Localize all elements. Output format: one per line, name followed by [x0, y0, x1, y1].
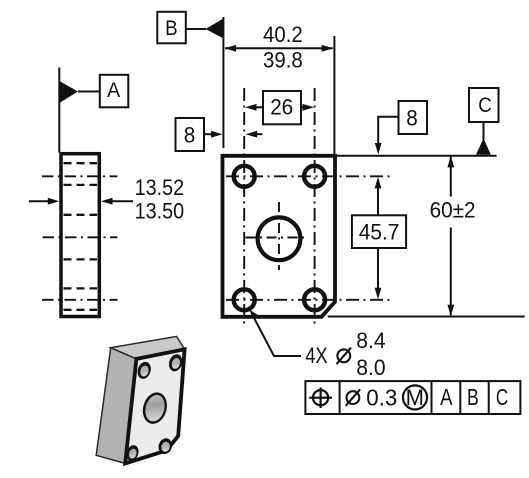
hidden line top hole lower	[64, 184, 98, 186]
dim 26 box	[263, 91, 301, 124]
datum A leader	[78, 91, 100, 93]
svg-text:4X: 4X	[305, 343, 328, 368]
dim 60 line upper segment	[447, 156, 454, 197]
datum A triangle	[59, 81, 78, 103]
datum A box	[100, 75, 129, 108]
fcf M circle	[403, 385, 427, 410]
top edge extension line right	[337, 155, 497, 157]
feature control frame outline	[305, 381, 520, 414]
svg-text:13.52: 13.52	[135, 175, 185, 200]
dim 26 right arrow	[301, 104, 314, 111]
hidden line bottom hole upper	[64, 287, 98, 289]
dim 45.7 upper arrow	[375, 177, 382, 215]
3d hole bottom-right	[157, 437, 174, 456]
callout text 8.4	[356, 328, 385, 353]
dim text 60±2	[430, 197, 476, 222]
hidden line top hole upper	[64, 162, 98, 164]
svg-text:B: B	[467, 384, 479, 410]
fcf datum C	[496, 384, 508, 410]
dim 8 opposing arrow	[246, 131, 263, 138]
svg-text:C: C	[496, 384, 508, 410]
hidden line bottom hole lower	[64, 309, 98, 311]
3d view front face	[125, 349, 184, 463]
hole bottom-right	[304, 289, 325, 310]
svg-text:8.0: 8.0	[356, 355, 385, 380]
dim text 13.50	[135, 199, 185, 224]
datum C box	[469, 88, 499, 122]
width dim line	[225, 45, 334, 52]
3d hole top-right	[167, 353, 185, 374]
extension line left top	[222, 17, 224, 148]
datum B leader	[186, 28, 206, 30]
front view outline with chamfer	[223, 156, 336, 317]
centerline column right	[314, 88, 316, 325]
holes callout leader	[250, 310, 301, 356]
center hole crosshair horizontal	[246, 237, 309, 239]
dim 8 top leader	[375, 117, 399, 155]
extension line right top	[333, 36, 335, 154]
svg-text:13.50: 13.50	[135, 199, 185, 224]
dim 60 line lower segment	[447, 228, 454, 317]
hole bottom-left	[234, 289, 255, 310]
svg-text:39.8: 39.8	[263, 48, 303, 73]
dim 45.7 box	[352, 215, 406, 248]
thickness dim right arrow	[101, 198, 133, 205]
side view outline	[61, 154, 99, 317]
callout text 4X	[305, 343, 328, 368]
svg-text:A: A	[440, 384, 453, 410]
centerline row top	[226, 175, 394, 177]
fcf tolerance text 0.3	[366, 385, 397, 411]
centerline side view middle	[43, 236, 118, 238]
svg-text:M: M	[406, 385, 424, 410]
callout diameter symbol	[337, 348, 351, 364]
hidden line center hole lower	[64, 258, 98, 260]
datum B triangle	[206, 19, 223, 38]
centerline column left	[243, 88, 245, 325]
svg-text:26: 26	[270, 95, 293, 120]
centerline row bottom	[226, 299, 394, 301]
svg-text:60±2: 60±2	[430, 197, 476, 222]
svg-text:0.3: 0.3	[366, 385, 397, 411]
bottom edge extension line right	[328, 316, 525, 318]
datum A extension line	[58, 68, 60, 153]
fcf diameter symbol	[346, 389, 360, 405]
svg-text:C: C	[478, 93, 492, 117]
center hole crosshair vertical	[278, 202, 280, 270]
callout text 8.0	[356, 355, 385, 380]
dim 8 left arrow to edge	[204, 131, 223, 138]
fcf datum B	[467, 384, 479, 410]
datum C stem	[483, 122, 485, 140]
svg-text:B: B	[165, 16, 178, 40]
3d view top face	[111, 336, 185, 359]
fcf datum A	[440, 384, 453, 410]
dim text 40.2	[263, 22, 303, 47]
dim text 13.52	[135, 175, 185, 200]
dim 8 left box	[176, 118, 205, 151]
svg-text:A: A	[107, 78, 121, 102]
fcf divider 3	[459, 381, 461, 414]
dim 26 left arrow	[245, 104, 263, 111]
svg-text:45.7: 45.7	[359, 220, 400, 245]
svg-text:40.2: 40.2	[263, 22, 303, 47]
svg-text:8: 8	[184, 123, 196, 148]
hole top-right	[304, 166, 325, 187]
thickness dim left arrow	[29, 198, 59, 205]
svg-text:8: 8	[406, 105, 418, 130]
3d view side face	[96, 348, 136, 464]
fcf divider 1	[339, 381, 341, 414]
fcf divider 4	[488, 381, 490, 414]
3d center hole	[139, 389, 170, 426]
dim 8 top box	[399, 101, 428, 134]
hidden line center hole upper	[64, 214, 98, 216]
hole top-left	[234, 166, 255, 187]
center hole	[258, 217, 301, 260]
dim text 39.8	[263, 48, 303, 73]
centerline side view bottom row	[42, 299, 118, 301]
3d hole top-left	[135, 360, 153, 381]
position symbol	[309, 387, 332, 408]
datum C triangle	[476, 138, 491, 154]
centerline side view top row	[42, 175, 118, 177]
dim 45.7 lower arrow	[375, 248, 382, 299]
datum B box	[157, 12, 186, 44]
fcf divider 2	[431, 381, 433, 414]
svg-text:8.4: 8.4	[356, 328, 385, 353]
3d hole bottom-left	[125, 444, 141, 463]
